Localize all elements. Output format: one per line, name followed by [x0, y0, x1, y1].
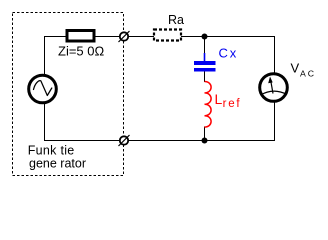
svg-text:AC: AC	[300, 69, 316, 79]
svg-text:Ra: Ra	[168, 13, 184, 27]
svg-text:Funk tie: Funk tie	[28, 144, 75, 158]
svg-text:L: L	[215, 91, 223, 107]
svg-text:ref: ref	[223, 98, 242, 110]
svg-text:gene rator: gene rator	[29, 157, 86, 171]
svg-text:Zi=5 0Ω: Zi=5 0Ω	[58, 44, 104, 59]
svg-text:V: V	[291, 61, 300, 76]
svg-text:Cx: Cx	[219, 46, 239, 61]
